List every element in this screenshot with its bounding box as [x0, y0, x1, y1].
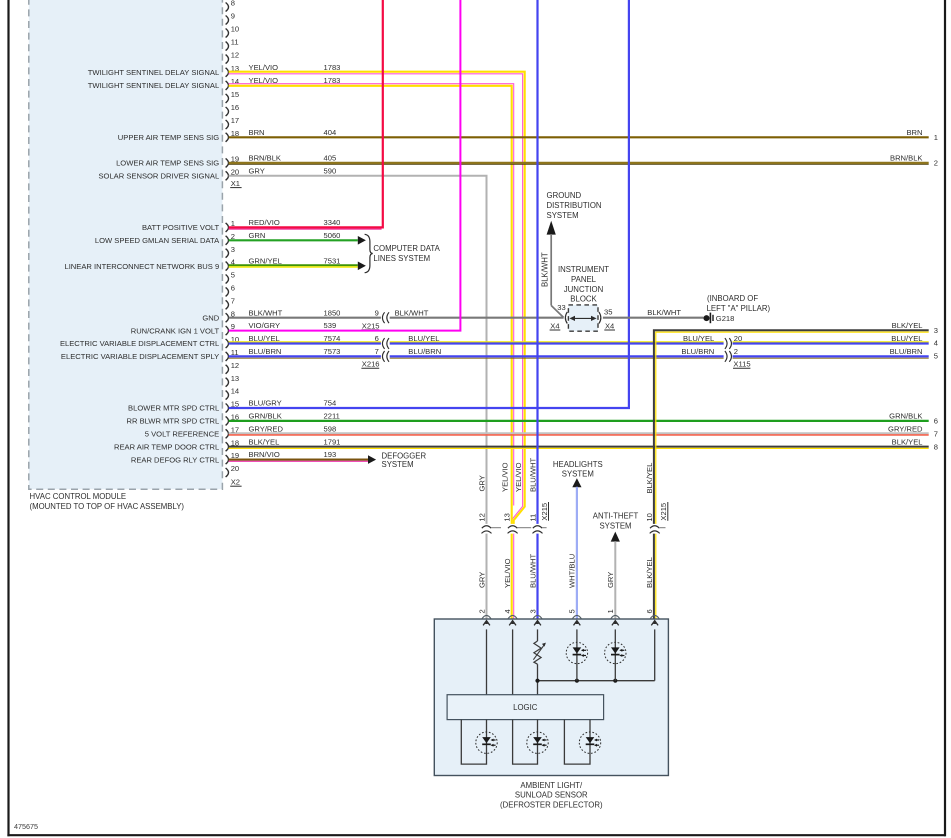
inline connector X215 terminal 10 on BLK/YEL	[650, 526, 659, 528]
svg-text:UPPER AIR TEMP SENS SIG: UPPER AIR TEMP SENS SIG	[118, 133, 220, 142]
svg-text:2211: 2211	[324, 412, 340, 421]
wire YEL/VIO 1783 pin13 X1 (yellow with violet stripe)	[229, 72, 525, 524]
svg-text:BLU/YEL: BLU/YEL	[683, 334, 714, 343]
svg-text:BLU/BRN: BLU/BRN	[681, 347, 714, 356]
svg-text:WHT/BLU: WHT/BLU	[568, 554, 577, 588]
svg-text:8: 8	[231, 0, 235, 8]
instrument panel junction block (dashed box)	[568, 305, 598, 331]
svg-text:10: 10	[231, 25, 239, 34]
inline connector X215 terminal 12 on GRY	[482, 526, 491, 528]
inline connector X215 terminal 13 on YEL/VIO	[508, 526, 517, 528]
wire YEL/VIO joined segment below connector X215 to sensor pin 4	[511, 534, 513, 619]
photodiode D3 (dashed circle)	[476, 732, 497, 753]
junction dot	[613, 679, 617, 683]
sensor pin entry bump	[611, 615, 620, 618]
connector pin 16 bump	[226, 416, 229, 425]
wire RED/VIO 3340 pin1 X2	[229, 0, 383, 227]
svg-text:20: 20	[231, 464, 239, 473]
wire BLU/WHT from top edge to sensor pin 3	[536, 0, 538, 619]
connector pin 19 bump	[226, 455, 229, 464]
svg-text:GRN/BLK: GRN/BLK	[249, 412, 282, 421]
svg-text:BLK/WHT: BLK/WHT	[541, 252, 550, 287]
wire GRN/BLK 2211 pin16 X2	[229, 420, 929, 422]
wire GRY 590 pin20 X1 to sensor pin 2	[229, 176, 487, 619]
svg-text:YEL/VIO: YEL/VIO	[503, 558, 512, 588]
connector pin 20 bump	[226, 171, 229, 180]
svg-text:BRN/BLK: BRN/BLK	[249, 154, 282, 163]
svg-text:BLK/YEL: BLK/YEL	[892, 321, 923, 330]
svg-text:3: 3	[528, 609, 537, 613]
svg-text:404: 404	[324, 128, 337, 137]
sensor internal pin arrow	[534, 621, 541, 626]
svg-text:5: 5	[231, 271, 235, 280]
junction dot	[575, 679, 579, 683]
svg-text:539: 539	[324, 321, 337, 330]
svg-text:LINES SYSTEM: LINES SYSTEM	[373, 254, 430, 263]
svg-text:BLOWER MTR SPD CTRL: BLOWER MTR SPD CTRL	[128, 404, 219, 413]
connector pin 19 bump	[226, 158, 229, 167]
svg-text:6: 6	[934, 417, 938, 426]
sensor internal pin arrow	[509, 621, 516, 626]
svg-text:1791: 1791	[324, 437, 341, 446]
svg-text:13: 13	[503, 513, 512, 521]
svg-text:3: 3	[934, 326, 938, 335]
svg-text:REAR AIR TEMP DOOR CTRL: REAR AIR TEMP DOOR CTRL	[114, 442, 219, 451]
svg-text:590: 590	[324, 166, 337, 175]
svg-text:INSTRUMENT: INSTRUMENT	[558, 265, 609, 274]
sensor internal pin arrow	[574, 621, 581, 626]
inline connector X215 terminal 9 on BLK/WHT	[382, 312, 384, 323]
arrow to defogger system	[368, 455, 376, 464]
svg-text:GRY/RED: GRY/RED	[888, 425, 923, 434]
svg-text:COMPUTER DATA: COMPUTER DATA	[373, 244, 440, 253]
svg-text:BRN: BRN	[906, 128, 922, 137]
svg-text:BLK/WHT: BLK/WHT	[647, 308, 681, 317]
wire BLK/YEL 1791 pin18 X2	[229, 446, 929, 448]
svg-text:1: 1	[606, 609, 615, 613]
svg-text:BLOCK: BLOCK	[570, 295, 597, 304]
internal wire sensor pin3 to photoresistor	[537, 629, 539, 641]
svg-text:1850: 1850	[324, 308, 341, 317]
svg-text:X215: X215	[362, 321, 380, 330]
svg-text:10: 10	[645, 513, 654, 521]
svg-text:BLK/YEL: BLK/YEL	[645, 557, 654, 588]
svg-text:BRN/BLK: BRN/BLK	[890, 154, 923, 163]
connector pin 11 bump	[226, 352, 229, 361]
svg-text:LOW SPEED GMLAN SERIAL DATA: LOW SPEED GMLAN SERIAL DATA	[95, 236, 220, 245]
svg-text:BLU/GRY: BLU/GRY	[249, 399, 282, 408]
connector pin 11 bump	[226, 42, 229, 51]
internal loop U1	[461, 720, 486, 765]
wire YEL/VIO 1783 pin14 X1	[229, 86, 512, 524]
svg-text:14: 14	[231, 387, 239, 396]
svg-text:2: 2	[934, 159, 938, 168]
junction block pin 35	[599, 312, 601, 324]
connector pin 9 bump	[226, 16, 229, 25]
LOGIC box	[447, 695, 603, 720]
svg-text:7: 7	[231, 296, 235, 305]
svg-text:TWILIGHT SENTINEL DELAY SIGNAL: TWILIGHT SENTINEL DELAY SIGNAL	[88, 68, 219, 77]
wire BRN/VIO 193 pin19 X2	[229, 459, 368, 461]
wire BLK/WHT branch up to ground distribution	[550, 234, 552, 306]
svg-text:BLU/BRN: BLU/BRN	[249, 347, 282, 356]
svg-text:GRY: GRY	[606, 572, 615, 588]
svg-text:YEL/VIO: YEL/VIO	[249, 63, 279, 72]
svg-text:HEADLIGHTS: HEADLIGHTS	[553, 460, 603, 469]
wire GRY/RED 598 pin17 X2	[229, 432, 929, 434]
svg-text:4: 4	[934, 339, 938, 348]
inline connector X216 terminal 7 on BLU/BRN	[382, 351, 384, 362]
svg-text:AMBIENT LIGHT/: AMBIENT LIGHT/	[520, 781, 583, 790]
svg-text:6: 6	[231, 284, 235, 293]
svg-text:11: 11	[528, 514, 537, 522]
arrow to anti-theft system	[611, 532, 620, 542]
svg-text:X215: X215	[540, 503, 549, 521]
svg-text:X115: X115	[733, 360, 750, 369]
svg-text:(DEFROSTER DEFLECTOR): (DEFROSTER DEFLECTOR)	[500, 800, 603, 809]
connector pin 15 bump	[226, 404, 229, 413]
junction dot	[535, 679, 539, 683]
sensor pin entry bump	[572, 615, 581, 618]
svg-text:BLU/YEL: BLU/YEL	[408, 334, 439, 343]
connector pin 18 bump	[226, 442, 229, 451]
svg-text:RR BLWR MTR SPD CTRL: RR BLWR MTR SPD CTRL	[127, 417, 220, 426]
svg-text:1: 1	[934, 133, 938, 142]
inline connector X115 terminal 2 on BLU/BRN	[725, 351, 727, 362]
connector pin 5 bump	[226, 275, 229, 284]
svg-text:SUNLOAD SENSOR: SUNLOAD SENSOR	[515, 791, 588, 800]
svg-text:RUN/CRANK IGN 1 VOLT: RUN/CRANK IGN 1 VOLT	[131, 326, 220, 335]
internal wire sensor pin5 through photodiode to bus	[576, 629, 578, 680]
svg-text:SYSTEM: SYSTEM	[547, 211, 579, 220]
wire BRN/BLK 405 pin19 X1	[229, 162, 929, 164]
wire BLK/YEL sensor pin6 to right edge	[654, 330, 929, 524]
internal wire sensor pin1 through photodiode to bus	[614, 629, 616, 680]
photodiode D2 (dashed circle)	[605, 642, 626, 663]
connector pin 10 bump	[226, 29, 229, 38]
connector pin 1 bump	[226, 223, 229, 232]
connector pin 6 bump	[226, 287, 229, 296]
svg-text:REAR DEFOG RLY CTRL: REAR DEFOG RLY CTRL	[131, 455, 219, 464]
svg-text:X2: X2	[231, 477, 240, 486]
connector pin 13 bump	[226, 68, 229, 77]
svg-text:5 VOLT REFERENCE: 5 VOLT REFERENCE	[145, 430, 219, 439]
svg-text:4: 4	[503, 609, 512, 613]
svg-text:12: 12	[477, 513, 486, 521]
svg-text:X4: X4	[605, 321, 614, 330]
svg-text:598: 598	[324, 424, 337, 433]
svg-text:SYSTEM: SYSTEM	[382, 460, 414, 469]
svg-text:11: 11	[231, 38, 239, 47]
connector pin 14 bump	[226, 391, 229, 400]
connector pin 15 bump	[226, 94, 229, 103]
inline connector X216 terminal 6 on BLU/YEL	[382, 338, 384, 349]
internal wire sensor pin6 to bus	[654, 629, 656, 680]
connector pin 17 bump	[226, 120, 229, 129]
svg-text:405: 405	[324, 154, 337, 163]
svg-text:5: 5	[568, 609, 577, 613]
arrow to ground distribution system	[547, 221, 556, 235]
svg-text:BLU/YEL: BLU/YEL	[891, 334, 922, 343]
svg-text:SOLAR SENSOR DRIVER SIGNAL: SOLAR SENSOR DRIVER SIGNAL	[98, 172, 219, 181]
svg-text:BLU/WHT: BLU/WHT	[528, 553, 537, 588]
svg-text:YEL/VIO: YEL/VIO	[514, 462, 523, 492]
svg-text:SYSTEM: SYSTEM	[599, 521, 631, 530]
svg-text:7573: 7573	[324, 347, 341, 356]
connector pin 10 bump	[226, 339, 229, 348]
junction block internal bus arrow	[572, 317, 595, 319]
svg-text:13: 13	[231, 374, 239, 383]
connector pin 12 bump	[226, 365, 229, 374]
svg-text:GRY/RED: GRY/RED	[249, 424, 284, 433]
internal wire sensor pin4 to logic	[512, 629, 514, 694]
svg-text:754: 754	[324, 399, 337, 408]
svg-text:BLK/WHT: BLK/WHT	[395, 308, 429, 317]
svg-text:3340: 3340	[324, 218, 341, 227]
connector pin 17 bump	[226, 429, 229, 438]
svg-text:BLU/BRN: BLU/BRN	[408, 347, 441, 356]
svg-text:LOWER AIR TEMP SENS SIG: LOWER AIR TEMP SENS SIG	[116, 159, 219, 168]
svg-text:G218: G218	[716, 314, 735, 323]
connector pin 20 bump	[226, 468, 229, 477]
arrow to computer data lines system (pin4)	[358, 262, 366, 271]
svg-text:X4: X4	[550, 321, 559, 330]
svg-text:X1: X1	[231, 179, 240, 188]
svg-text:SYSTEM: SYSTEM	[562, 470, 594, 479]
svg-text:193: 193	[324, 450, 337, 459]
svg-text:GRY: GRY	[477, 572, 486, 588]
connector pin 2 bump	[226, 236, 229, 245]
svg-text:5060: 5060	[324, 231, 341, 240]
svg-text:GROUND: GROUND	[547, 191, 582, 200]
junction block pin 33	[565, 312, 567, 324]
svg-text:6: 6	[375, 334, 379, 343]
svg-text:TWILIGHT SENTINEL DELAY SIGNAL: TWILIGHT SENTINEL DELAY SIGNAL	[88, 81, 219, 90]
sensor internal pin arrow	[483, 621, 490, 626]
svg-text:JUNCTION: JUNCTION	[564, 285, 603, 294]
svg-text:7: 7	[934, 430, 938, 439]
svg-text:BLK/WHT: BLK/WHT	[249, 308, 283, 317]
svg-text:GRY: GRY	[249, 166, 265, 175]
svg-text:BLK/YEL: BLK/YEL	[892, 438, 923, 447]
wire BLK/WHT 1850 pin8 X2 (GND)	[229, 317, 381, 319]
ambient light/sunload sensor box	[434, 619, 668, 776]
svg-text:BLU/WHT: BLU/WHT	[528, 457, 537, 492]
svg-text:16: 16	[231, 103, 239, 112]
photoresistor R (zigzag)	[534, 641, 541, 664]
svg-text:6: 6	[645, 609, 654, 613]
svg-text:3: 3	[231, 245, 235, 254]
svg-text:1783: 1783	[324, 63, 341, 72]
wire GRY sensor pin1 to anti-theft system	[614, 541, 616, 619]
svg-text:17: 17	[231, 116, 239, 125]
svg-text:GRY: GRY	[477, 475, 486, 491]
svg-text:15: 15	[231, 90, 239, 99]
svg-text:ANTI-THEFT: ANTI-THEFT	[593, 511, 639, 520]
svg-text:7: 7	[375, 347, 379, 356]
svg-text:GRN: GRN	[249, 231, 266, 240]
internal bus line	[538, 680, 655, 682]
connector pin 9 bump	[226, 326, 229, 335]
svg-text:GND: GND	[202, 313, 219, 322]
brace computer data lines system	[365, 234, 373, 272]
sensor pin entry bump	[482, 615, 491, 618]
internal wire sensor pin2 to logic	[486, 629, 488, 694]
svg-text:YEL/VIO: YEL/VIO	[500, 462, 509, 492]
svg-text:LINEAR INTERCONNECT NETWORK BU: LINEAR INTERCONNECT NETWORK BUS 9	[64, 262, 219, 271]
connector tick lines	[491, 527, 501, 529]
internal loop U3	[564, 720, 590, 765]
photodiode D5 (dashed circle)	[579, 732, 600, 753]
inline connector X115 terminal 20 on BLU/YEL	[725, 338, 727, 349]
inline connector X215 terminal 11 on BLU/WHT	[533, 526, 542, 528]
connector pin 3 bump	[226, 249, 229, 258]
svg-text:BRN/VIO: BRN/VIO	[249, 450, 280, 459]
wire BRN 404 pin18 X1	[229, 136, 929, 138]
svg-text:2: 2	[477, 609, 486, 613]
arrow to headlights system	[572, 478, 581, 487]
svg-text:PANEL: PANEL	[571, 275, 597, 284]
sensor pin entry bump	[533, 615, 542, 618]
svg-text:LEFT "A" PILLAR): LEFT "A" PILLAR)	[707, 304, 771, 313]
connector pin 8 bump	[226, 3, 229, 12]
sensor internal pin arrow	[651, 621, 658, 626]
wire VIO/GRY 539 pin9 X2	[229, 0, 461, 331]
wire WHT/BLU sensor pin5 to headlights system	[576, 487, 578, 619]
svg-text:BLK/YEL: BLK/YEL	[645, 463, 654, 494]
sensor pin entry bump	[650, 615, 659, 618]
svg-text:5: 5	[934, 352, 938, 361]
svg-text:9: 9	[375, 308, 379, 317]
svg-text:12: 12	[231, 51, 239, 60]
connector pin 18 bump	[226, 133, 229, 142]
internal wire photoresistor to junction	[537, 664, 539, 695]
svg-text:9: 9	[231, 12, 235, 21]
internal loop U2	[513, 720, 538, 765]
HVAC control module (dashed box)	[29, 0, 223, 489]
svg-text:BRN: BRN	[249, 128, 265, 137]
connector pin 16 bump	[226, 107, 229, 116]
connector pin 7 bump	[226, 300, 229, 309]
svg-text:(MOUNTED TO TOP OF HVAC ASSEMB: (MOUNTED TO TOP OF HVAC ASSEMBLY)	[30, 502, 185, 511]
connector pin 8 bump	[226, 313, 229, 322]
svg-text:12: 12	[231, 361, 239, 370]
wire GRN 5060 pin2 X2	[229, 239, 358, 241]
svg-text:LOGIC: LOGIC	[513, 703, 538, 712]
wire BLK/WHT from junction block to G218	[603, 317, 704, 319]
wire BLU/BRN 7573 pin11 X2	[229, 355, 381, 357]
svg-text:20: 20	[734, 334, 742, 343]
connector pin 13 bump	[226, 378, 229, 387]
svg-text:X215: X215	[659, 503, 668, 521]
page border frame	[7, 0, 9, 836]
photodiode D4 (dashed circle)	[527, 732, 548, 753]
svg-text:RED/VIO: RED/VIO	[249, 218, 280, 227]
svg-text:ELECTRIC VARIABLE DISPLACEMENT: ELECTRIC VARIABLE DISPLACEMENT SPLY	[61, 352, 219, 361]
svg-text:35: 35	[604, 308, 612, 317]
svg-text:VIO/GRY: VIO/GRY	[249, 321, 281, 330]
arrow to computer data lines system (pin2)	[358, 236, 366, 245]
svg-text:ELECTRIC VARIABLE DISPLACEMENT: ELECTRIC VARIABLE DISPLACEMENT CTRL	[60, 339, 219, 348]
svg-text:14: 14	[231, 77, 239, 86]
sensor pin entry bump	[508, 615, 517, 618]
svg-text:DISTRIBUTION: DISTRIBUTION	[547, 201, 602, 210]
connector pin 12 bump	[226, 55, 229, 64]
svg-text:GRN/BLK: GRN/BLK	[889, 412, 922, 421]
svg-text:BATT POSITIVE VOLT: BATT POSITIVE VOLT	[142, 223, 220, 232]
photodiode D1 (dashed circle)	[566, 642, 587, 663]
svg-text:2: 2	[734, 347, 738, 356]
wire BLU/GRY 754 pin15 X2	[229, 0, 629, 408]
sensor internal pin arrow	[612, 621, 619, 626]
wire BLU/YEL 7574 pin10 X2	[229, 341, 381, 343]
svg-text:X216: X216	[362, 360, 380, 369]
connector pin 14 bump	[226, 81, 229, 90]
svg-text:(INBOARD OF: (INBOARD OF	[707, 294, 758, 303]
svg-text:BLU/BRN: BLU/BRN	[890, 347, 923, 356]
svg-text:475675: 475675	[14, 822, 38, 831]
svg-text:33: 33	[557, 303, 565, 312]
svg-text:8: 8	[934, 442, 938, 451]
svg-text:HVAC CONTROL MODULE: HVAC CONTROL MODULE	[30, 492, 127, 501]
wire GRN/YEL 7531 pin4 X2	[229, 264, 358, 266]
connector pin 4 bump	[226, 262, 229, 271]
ground point G218	[704, 315, 710, 321]
svg-text:BLK/YEL: BLK/YEL	[249, 437, 280, 446]
